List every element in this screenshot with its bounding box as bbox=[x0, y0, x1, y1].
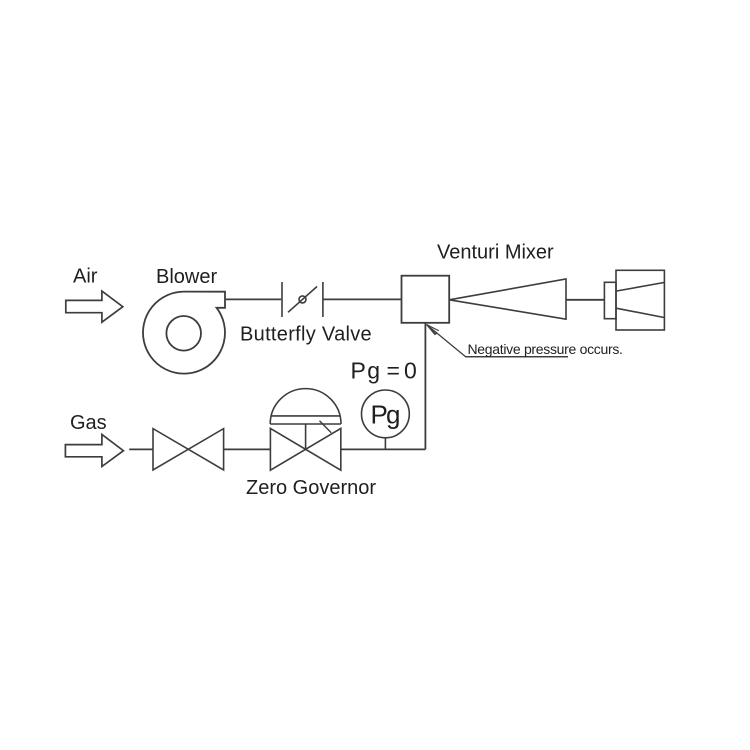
gas inlet arrow bbox=[65, 435, 123, 467]
burner nozzle lower line bbox=[617, 308, 664, 317]
leader line to note bbox=[427, 325, 569, 357]
wire: blower outlet to butterfly valve bbox=[226, 298, 281, 300]
burner nozzle upper line bbox=[617, 283, 664, 292]
wire: cone to burner flange bbox=[566, 299, 604, 301]
zero governor diaphragm plate upper line bbox=[271, 415, 340, 417]
wire: butterfly valve to venturi mixer bbox=[323, 298, 402, 300]
wire: gas arrow to shutoff valve bbox=[129, 448, 153, 450]
burner flange bbox=[604, 282, 616, 318]
blower B1 hub bbox=[166, 316, 201, 351]
venturi mixer body bbox=[402, 276, 450, 323]
wire: valve to zero governor bbox=[224, 448, 271, 450]
wire: governor to riser bbox=[341, 448, 426, 450]
leader arrowhead bbox=[427, 325, 439, 336]
venturi diffuser cone bbox=[449, 279, 566, 319]
zero governor dome bbox=[270, 389, 341, 424]
butterfly valve V1 bbox=[282, 282, 323, 317]
zero governor body bbox=[270, 428, 340, 470]
note underline bbox=[466, 356, 568, 358]
gauge stem bbox=[384, 438, 386, 450]
svg-text:Gas: Gas bbox=[70, 412, 107, 434]
svg-text:Air: Air bbox=[73, 266, 98, 288]
svg-text:Pg: Pg bbox=[371, 400, 401, 430]
zero governor stem bbox=[305, 424, 307, 449]
svg-text:Pg=0: Pg=0 bbox=[351, 358, 417, 384]
gas shutoff valve V2 bbox=[153, 429, 224, 470]
air inlet arrow bbox=[66, 291, 123, 322]
pressure gauge PG body bbox=[362, 390, 410, 438]
blower B1 body bbox=[143, 292, 225, 374]
zero governor vent tick bbox=[320, 421, 332, 433]
svg-text:Butterfly Valve: Butterfly Valve bbox=[240, 324, 372, 346]
svg-text:Zero Governor: Zero Governor bbox=[246, 477, 376, 499]
svg-text:Venturi Mixer: Venturi Mixer bbox=[437, 242, 554, 264]
burner body bbox=[616, 270, 664, 330]
wire: riser to venturi mixer bbox=[424, 323, 426, 450]
zero governor diaphragm plate lower line bbox=[270, 423, 341, 425]
svg-text:Blower: Blower bbox=[156, 266, 217, 288]
svg-text:Negative pressure occurs.: Negative pressure occurs. bbox=[468, 341, 623, 357]
